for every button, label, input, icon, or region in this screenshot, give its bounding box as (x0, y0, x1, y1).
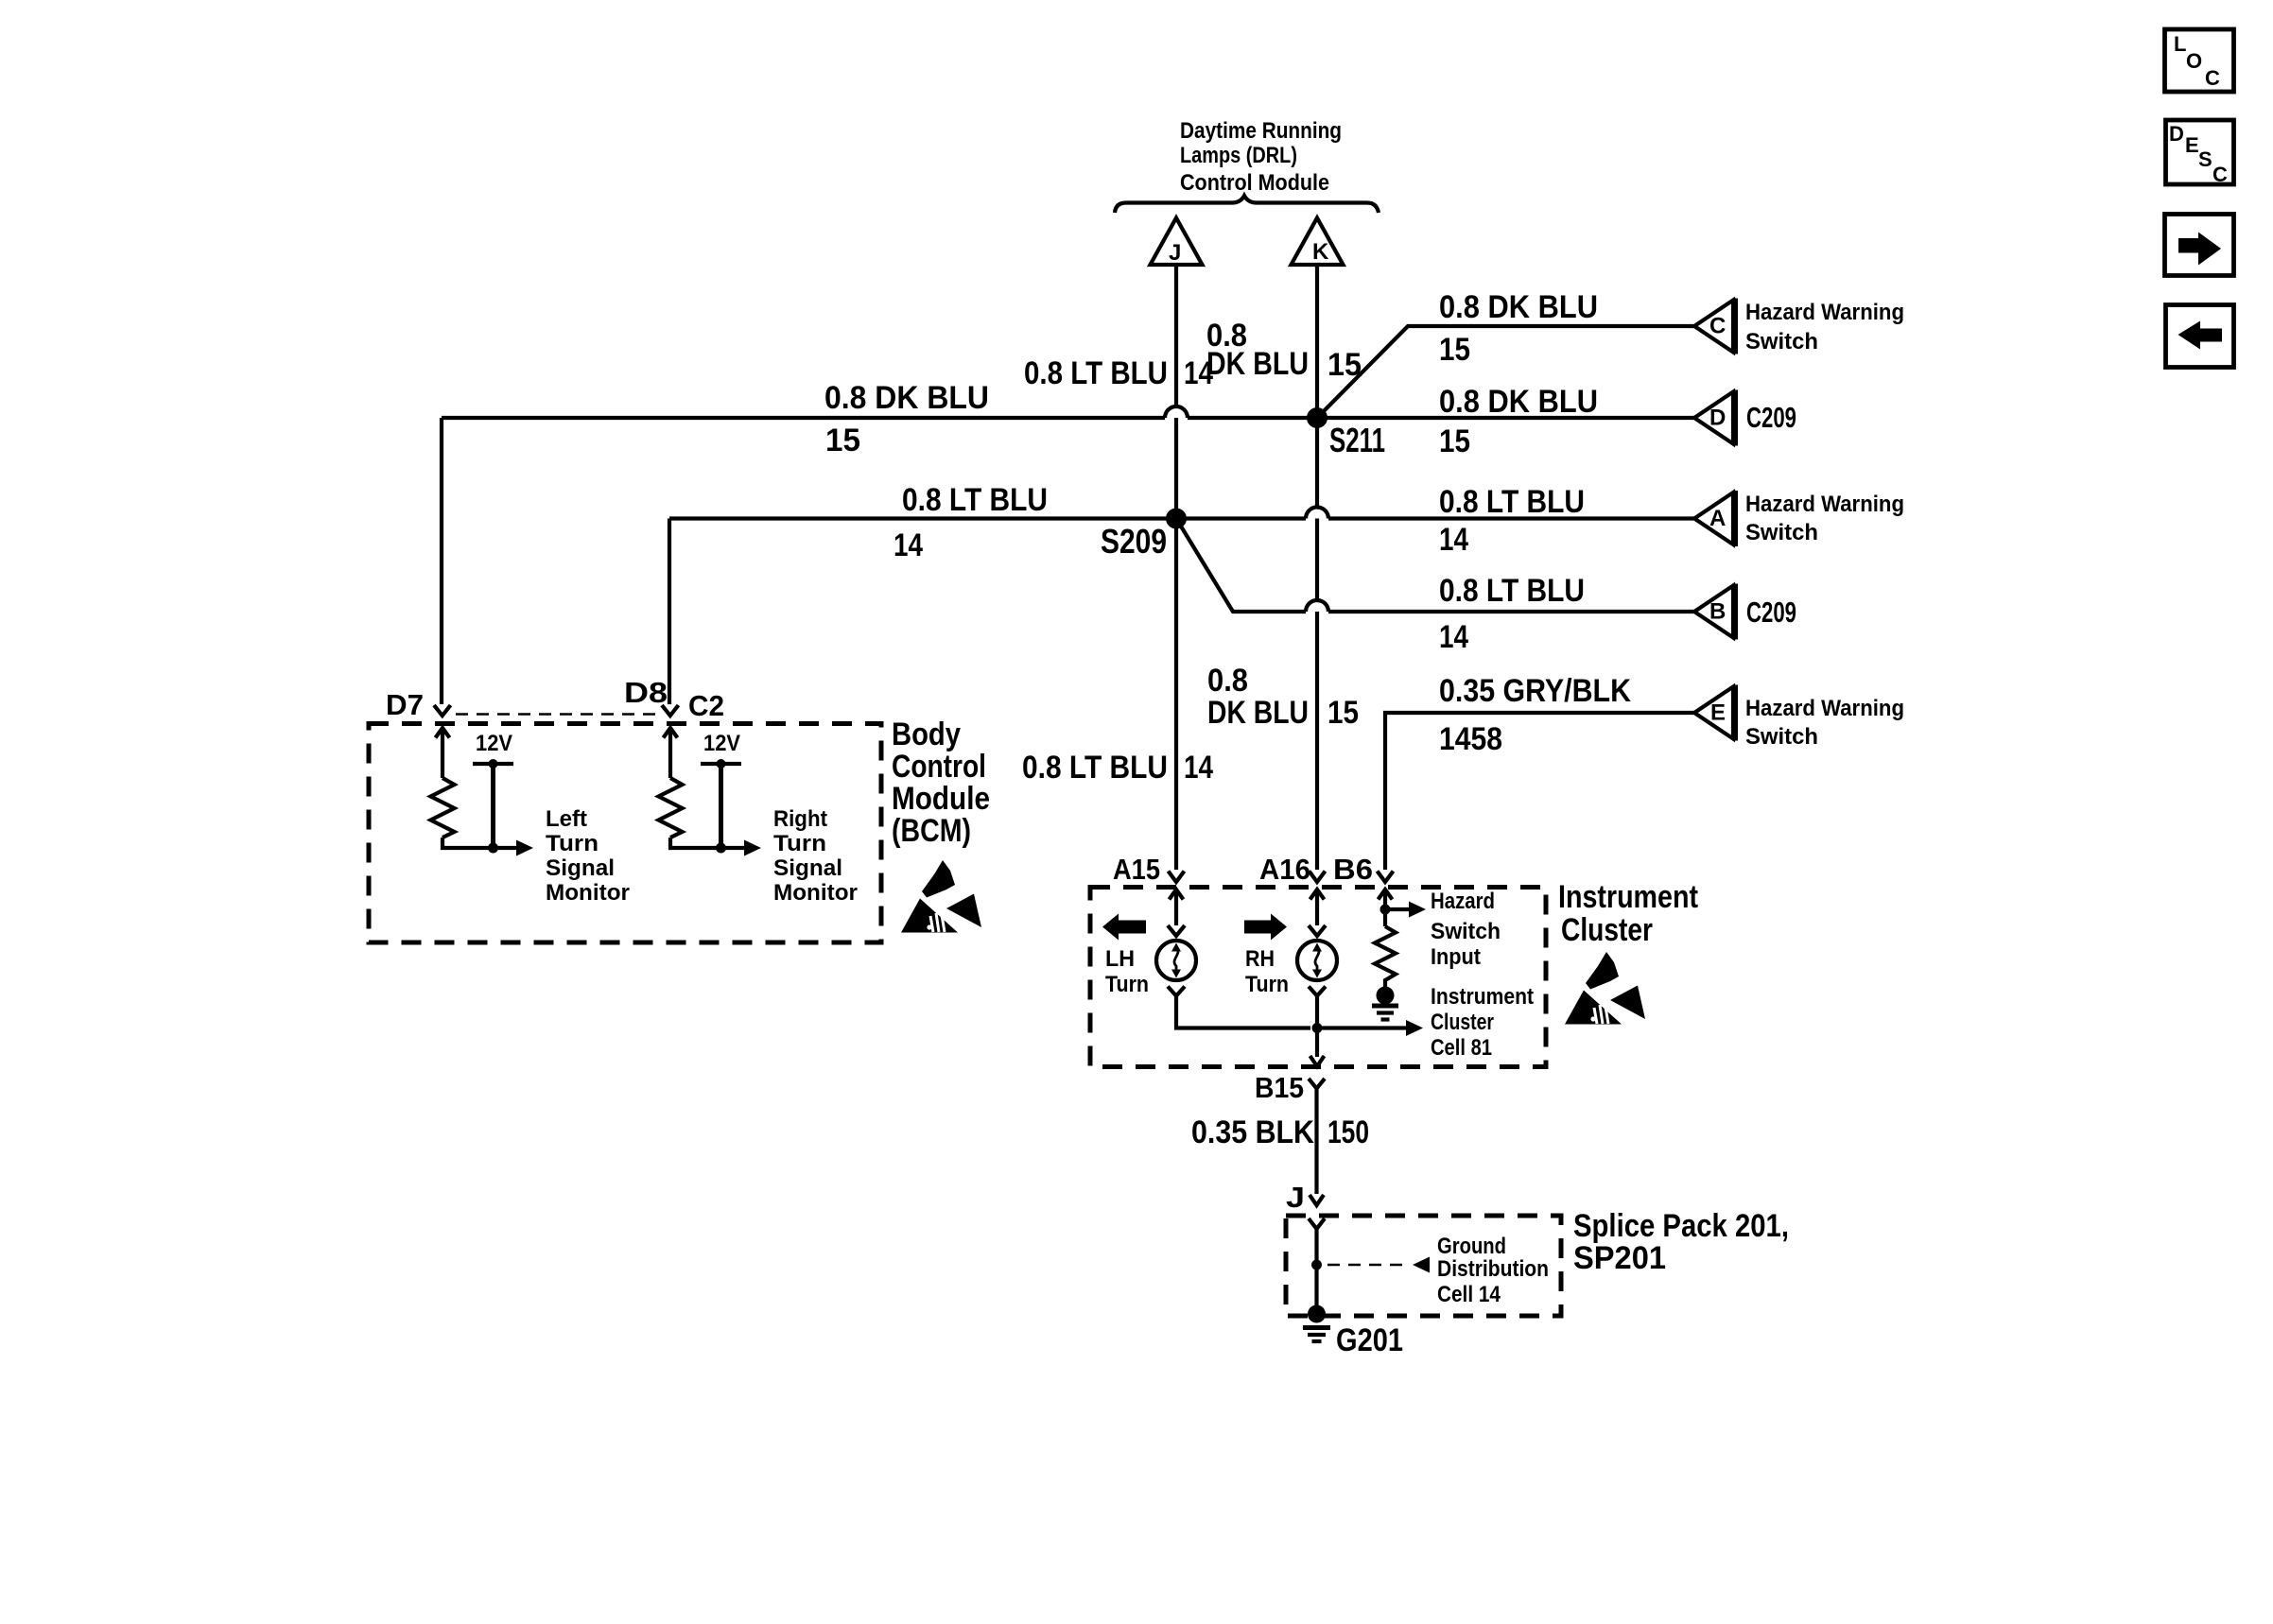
dashed connector face line D7-D8 (456, 713, 660, 716)
svg-text:A: A (1709, 506, 1726, 531)
svg-text:Switch: Switch (1745, 329, 1818, 354)
LH arrow icon (1102, 914, 1146, 941)
wire: LT BLU horizontal (to BCM D8 and hazard switch A) (669, 519, 1694, 705)
label Hazard Warning Switch (A) (1745, 492, 1904, 545)
label Hazard Warning Switch (E) (1745, 696, 1904, 750)
svg-text:Cell 14: Cell 14 (1437, 1282, 1501, 1307)
wire: DK BLU horizontal (to BCM D7 and C209 D) (442, 418, 1694, 704)
label RH Turn (1245, 946, 1289, 997)
svg-text:Cell 81: Cell 81 (1431, 1035, 1492, 1061)
svg-text:Daytime Running: Daytime Running (1180, 118, 1342, 144)
svg-text:Hazard Warning: Hazard Warning (1745, 492, 1904, 517)
label Instrument Cluster (1558, 879, 1698, 948)
label Body Control Module (BCM) (892, 717, 990, 849)
label 0.8 DK BLU 15 (K wire, lower) (1207, 663, 1359, 731)
connector triangle E (Hazard Warning Switch) (1694, 685, 1736, 741)
lamp connector chevron top (RH) (1309, 925, 1326, 936)
svg-text:Module: Module (892, 781, 990, 817)
wire: B15 to ground splice (1314, 1089, 1318, 1195)
12V supply (right) (701, 731, 741, 848)
ESD symbol (BCM) (901, 860, 981, 933)
svg-text:0.8 LT BLU: 0.8 LT BLU (1439, 484, 1585, 520)
BCM dashed box (369, 724, 881, 943)
resistor (right turn monitor pull-up) (659, 778, 683, 838)
label Hazard Switch Input (1431, 889, 1501, 970)
svg-text:J: J (1286, 1181, 1305, 1214)
DRL Control Module label (1180, 118, 1342, 196)
svg-text:E: E (2185, 133, 2199, 157)
svg-text:Monitor: Monitor (546, 880, 630, 906)
svg-text:C: C (2205, 66, 2220, 90)
svg-text:0.8 DK BLU: 0.8 DK BLU (824, 380, 989, 416)
svg-text:15: 15 (1327, 695, 1359, 731)
svg-text:14: 14 (1184, 355, 1213, 391)
svg-text:SP201: SP201 (1573, 1240, 1666, 1276)
svg-text:S209: S209 (1101, 522, 1167, 561)
lamp connector chevron top (LH) (1168, 925, 1185, 936)
connector triangle D (C209) (1694, 390, 1736, 446)
svg-text:0.8 DK BLU: 0.8 DK BLU (1439, 289, 1598, 325)
svg-text:Control: Control (892, 749, 986, 785)
internal ground (hazard input) (1372, 987, 1398, 1020)
icon box right-arrow (2165, 215, 2234, 276)
wire hop over K at B line (1306, 600, 1328, 612)
label Instrument Cluster Cell 81 (1431, 984, 1534, 1061)
label 0.8 DK BLU 15 (K wire, upper) (1206, 318, 1362, 383)
label 0.8 LT BLU 14 (J wire, lower) (1022, 750, 1213, 786)
connector triangle K (DRL module pin K) (1292, 218, 1344, 266)
label 0.8 LT BLU 14 (A line right) (1439, 484, 1585, 558)
label Hazard Warning Switch (C) (1745, 300, 1904, 354)
arrow into splice pack (1310, 1195, 1324, 1205)
svg-text:Signal: Signal (773, 855, 842, 881)
wire: GRY/BLK to hazard switch E (1385, 713, 1694, 870)
svg-text:Turn: Turn (1105, 972, 1149, 997)
svg-text:Hazard Warning: Hazard Warning (1745, 300, 1904, 325)
svg-text:Ground: Ground (1437, 1234, 1506, 1259)
label Ground Distribution Cell 14 (1437, 1234, 1549, 1307)
svg-text:Body: Body (892, 717, 961, 752)
svg-text:0.8 LT BLU: 0.8 LT BLU (1024, 355, 1168, 391)
svg-text:Switch: Switch (1745, 724, 1818, 750)
connector fork A15 (1169, 872, 1185, 883)
icon box LOC (2165, 29, 2234, 92)
svg-text:Turn: Turn (546, 831, 599, 856)
svg-text:Splice Pack 201,: Splice Pack 201, (1573, 1208, 1789, 1244)
connector fork B15 (1309, 1079, 1325, 1089)
svg-text:Left: Left (546, 806, 587, 832)
svg-text:0.8 DK BLU: 0.8 DK BLU (1439, 384, 1598, 420)
svg-text:Monitor: Monitor (773, 880, 858, 906)
splice S211 (1307, 407, 1385, 459)
svg-text:L: L (2174, 32, 2186, 56)
arrow to Left Turn Signal Monitor (516, 840, 533, 856)
label 0.8 LT BLU 14 (B line) (1439, 573, 1585, 655)
RH arrow icon (1244, 914, 1287, 941)
svg-text:C2: C2 (688, 689, 724, 722)
BCM right input arrow (from D8) (664, 728, 678, 778)
lamp connector chevron bottom (RH) (1309, 987, 1326, 996)
label Right Turn Signal Monitor (773, 806, 858, 906)
node: right monitor junction (716, 843, 726, 854)
wire: diagonal from S211 up to hazard switch C line (1317, 326, 1694, 418)
svg-text:K: K (1312, 239, 1329, 265)
svg-text:DK BLU: DK BLU (1206, 346, 1309, 382)
connector fork D8 (662, 705, 679, 716)
wire: J vertical (LT BLU circuit 14) (1174, 265, 1178, 870)
label 0.8 DK BLU 15 (C line) (1439, 289, 1598, 368)
wire resistor to monitor node (670, 838, 744, 848)
label 0.35 BLK 150 (1191, 1114, 1369, 1150)
svg-text:S: S (2198, 147, 2212, 171)
arrow down to B15 (1310, 1056, 1325, 1066)
svg-text:0.8 LT BLU: 0.8 LT BLU (902, 482, 1048, 518)
svg-text:0.8: 0.8 (1207, 663, 1248, 699)
connector triangle B (C209) (1694, 584, 1736, 640)
ground G201 (1303, 1305, 1403, 1359)
svg-text:Control Module: Control Module (1180, 170, 1329, 196)
svg-text:D7: D7 (386, 688, 424, 721)
node: cluster ground bus junction (1312, 1023, 1323, 1033)
svg-text:Right: Right (773, 806, 827, 832)
node: B6 branch (1380, 905, 1391, 915)
LH turn indicator lamp (1156, 941, 1196, 980)
label 0.8 LT BLU 14 (J wire, upper) (1024, 355, 1213, 391)
svg-text:O: O (2186, 49, 2202, 73)
svg-text:C209: C209 (1746, 401, 1796, 434)
svg-text:150: 150 (1327, 1114, 1369, 1150)
svg-text:S211: S211 (1329, 421, 1385, 459)
wire hop over K at LT BLU line (1306, 508, 1328, 519)
svg-text:Switch: Switch (1431, 919, 1501, 944)
svg-text:Lamps (DRL): Lamps (DRL) (1180, 143, 1297, 168)
svg-text:B6: B6 (1333, 853, 1373, 886)
svg-text:G201: G201 (1336, 1322, 1403, 1358)
svg-text:Turn: Turn (1245, 972, 1289, 997)
svg-text:A15: A15 (1113, 853, 1160, 886)
Instrument Cluster dashed box (1090, 888, 1546, 1067)
svg-text:12V: 12V (703, 731, 740, 756)
svg-text:0.35 BLK: 0.35 BLK (1191, 1114, 1314, 1150)
wire: diagonal from S209 down to C209 B line (1176, 519, 1694, 613)
svg-text:15: 15 (1439, 332, 1470, 368)
svg-text:C209: C209 (1746, 596, 1796, 629)
svg-text:Cluster: Cluster (1431, 1010, 1494, 1035)
svg-text:Switch: Switch (1745, 520, 1818, 545)
svg-text:Instrument: Instrument (1558, 879, 1698, 915)
Splice Pack dashed box (1286, 1216, 1561, 1316)
svg-text:LH: LH (1105, 946, 1135, 972)
connector fork B6 (1378, 872, 1394, 883)
svg-text:(BCM): (BCM) (892, 813, 971, 849)
connector fork D7 (434, 705, 451, 716)
svg-text:0.8 LT BLU: 0.8 LT BLU (1439, 573, 1585, 609)
svg-text:12V: 12V (476, 731, 512, 756)
svg-text:15: 15 (825, 423, 860, 458)
svg-text:14: 14 (894, 527, 923, 563)
LH turn lamp input arrow (1170, 890, 1184, 925)
svg-text:B: B (1709, 599, 1726, 625)
BCM left input arrow (from D7) (436, 728, 450, 778)
dashed reference to Ground Distribution (1327, 1257, 1430, 1273)
node: left monitor junction (488, 843, 498, 854)
svg-text:Signal: Signal (546, 855, 615, 881)
hazard switch input arrow (B6) (1379, 890, 1393, 926)
svg-text:A16: A16 (1259, 853, 1310, 886)
12V supply (left) (473, 731, 513, 848)
label Left Turn Signal Monitor (546, 806, 630, 906)
connector triangle C (Hazard Warning Switch) (1694, 299, 1736, 354)
wire resistor to monitor node (442, 838, 516, 848)
svg-text:0.8 LT BLU: 0.8 LT BLU (1022, 750, 1168, 786)
wire inside splice pack (1314, 1229, 1318, 1314)
wire: LH lamp to cluster ground bus (1176, 996, 1310, 1028)
RH turn indicator lamp (1297, 941, 1337, 980)
ESD symbol (instrument cluster) (1565, 952, 1645, 1025)
svg-text:14: 14 (1439, 522, 1468, 558)
svg-text:15: 15 (1439, 423, 1470, 459)
svg-text:J: J (1169, 240, 1181, 266)
label LH Turn (1105, 946, 1149, 997)
node: splice junction (1311, 1260, 1322, 1270)
brace over DRL module pins (1115, 196, 1379, 213)
splice S209 (1101, 509, 1187, 561)
svg-text:Hazard: Hazard (1431, 889, 1495, 914)
svg-text:Turn: Turn (773, 831, 826, 856)
svg-text:D: D (1709, 406, 1726, 431)
svg-text:14: 14 (1439, 619, 1468, 655)
svg-text:Cluster: Cluster (1561, 912, 1653, 948)
label Splice Pack 201, SP201 (1573, 1208, 1789, 1276)
svg-text:Distribution: Distribution (1437, 1256, 1549, 1282)
svg-text:C: C (2212, 163, 2228, 186)
icon box left-arrow (2166, 305, 2234, 368)
wire: RH lamp down through bus (1315, 996, 1319, 1058)
label 0.35 GRY/BLK 1458 (1439, 673, 1631, 757)
svg-text:Input: Input (1431, 944, 1481, 970)
svg-text:1458: 1458 (1439, 721, 1502, 757)
svg-text:B15: B15 (1255, 1071, 1304, 1104)
resistor (hazard switch input) (1375, 926, 1396, 987)
svg-text:Hazard Warning: Hazard Warning (1745, 696, 1904, 721)
wire hop over J at DK BLU line (1165, 406, 1188, 418)
connector fork A16 (1310, 872, 1326, 883)
connector triangle A (Hazard Warning Switch) (1694, 491, 1736, 546)
svg-text:RH: RH (1245, 946, 1275, 972)
label 0.8 DK BLU 15 (D line right) (1439, 384, 1598, 459)
svg-text:C: C (1709, 314, 1726, 339)
svg-text:0.35 GRY/BLK: 0.35 GRY/BLK (1439, 673, 1631, 709)
svg-text:14: 14 (1184, 750, 1213, 786)
label 0.8 DK BLU 15 (left segment) (824, 380, 989, 458)
arrow to Hazard Switch Input (1385, 902, 1426, 918)
connector triangle J (DRL module pin J) (1151, 218, 1203, 267)
icon box DESC (2166, 120, 2234, 186)
arrow to Instrument Cluster Cell 81 (1317, 1020, 1423, 1036)
svg-text:E: E (1710, 700, 1726, 726)
RH turn lamp input arrow (1310, 890, 1325, 925)
svg-text:D: D (2169, 122, 2184, 146)
connector fork (splice pack J) (1309, 1218, 1325, 1229)
wire: K vertical (DK BLU circuit 15) (1315, 265, 1319, 870)
label 0.8 LT BLU 14 (left segment) (894, 482, 1048, 563)
svg-text:DK BLU: DK BLU (1207, 695, 1309, 731)
resistor (left turn monitor pull-up) (431, 778, 455, 838)
svg-text:D8: D8 (624, 676, 668, 709)
arrow to Right Turn Signal Monitor (744, 840, 761, 856)
lamp connector chevron bottom (LH) (1168, 987, 1185, 996)
svg-text:Instrument: Instrument (1431, 984, 1534, 1010)
